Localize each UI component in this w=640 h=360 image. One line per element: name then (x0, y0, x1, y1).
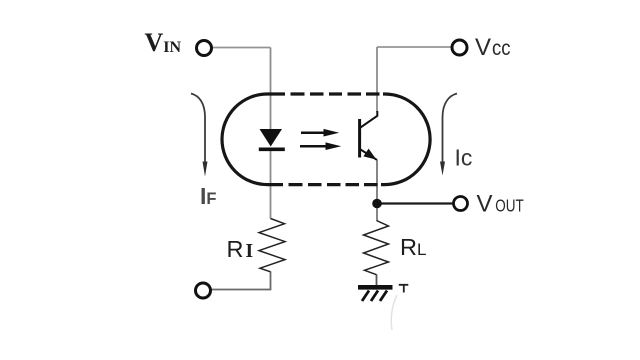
wire LED anode vertical (270, 48, 272, 131)
wire RL bottom to ground (376, 275, 378, 287)
junction node at VOUT (372, 199, 382, 209)
current arrow IC (440, 94, 457, 176)
wire VIN to corner (213, 47, 271, 49)
svg-text:cc: cc (492, 36, 511, 60)
svg-text:R: R (227, 236, 244, 262)
terminal VCC (452, 40, 467, 55)
wire VCC to corner (377, 46, 451, 48)
phototransistor Q1 (360, 111, 378, 160)
current arrow IF (191, 94, 208, 177)
wire collector vertical (376, 47, 378, 112)
LED D1 (259, 129, 285, 149)
faint artifact curve (391, 295, 397, 330)
wire RI bottom to lower terminal (212, 272, 271, 290)
light emission arrows (300, 129, 341, 150)
wire junction to VOUT (377, 202, 454, 204)
ground (358, 285, 408, 301)
terminal VOUT (454, 197, 468, 211)
wire LED cathode to resistor RI (270, 150, 272, 219)
wire emitter to junction and RL (376, 160, 378, 221)
terminal lower-left (196, 283, 211, 298)
resistor RL (364, 221, 389, 275)
optocoupler package U1 (222, 94, 430, 185)
svg-text:V: V (475, 34, 491, 61)
svg-text:I: I (246, 241, 254, 262)
svg-text:OUT: OUT (495, 196, 524, 216)
resistor RI (259, 219, 285, 272)
svg-text:Ic: Ic (455, 145, 473, 171)
svg-text:V: V (477, 191, 493, 218)
terminal VIN (197, 41, 212, 56)
